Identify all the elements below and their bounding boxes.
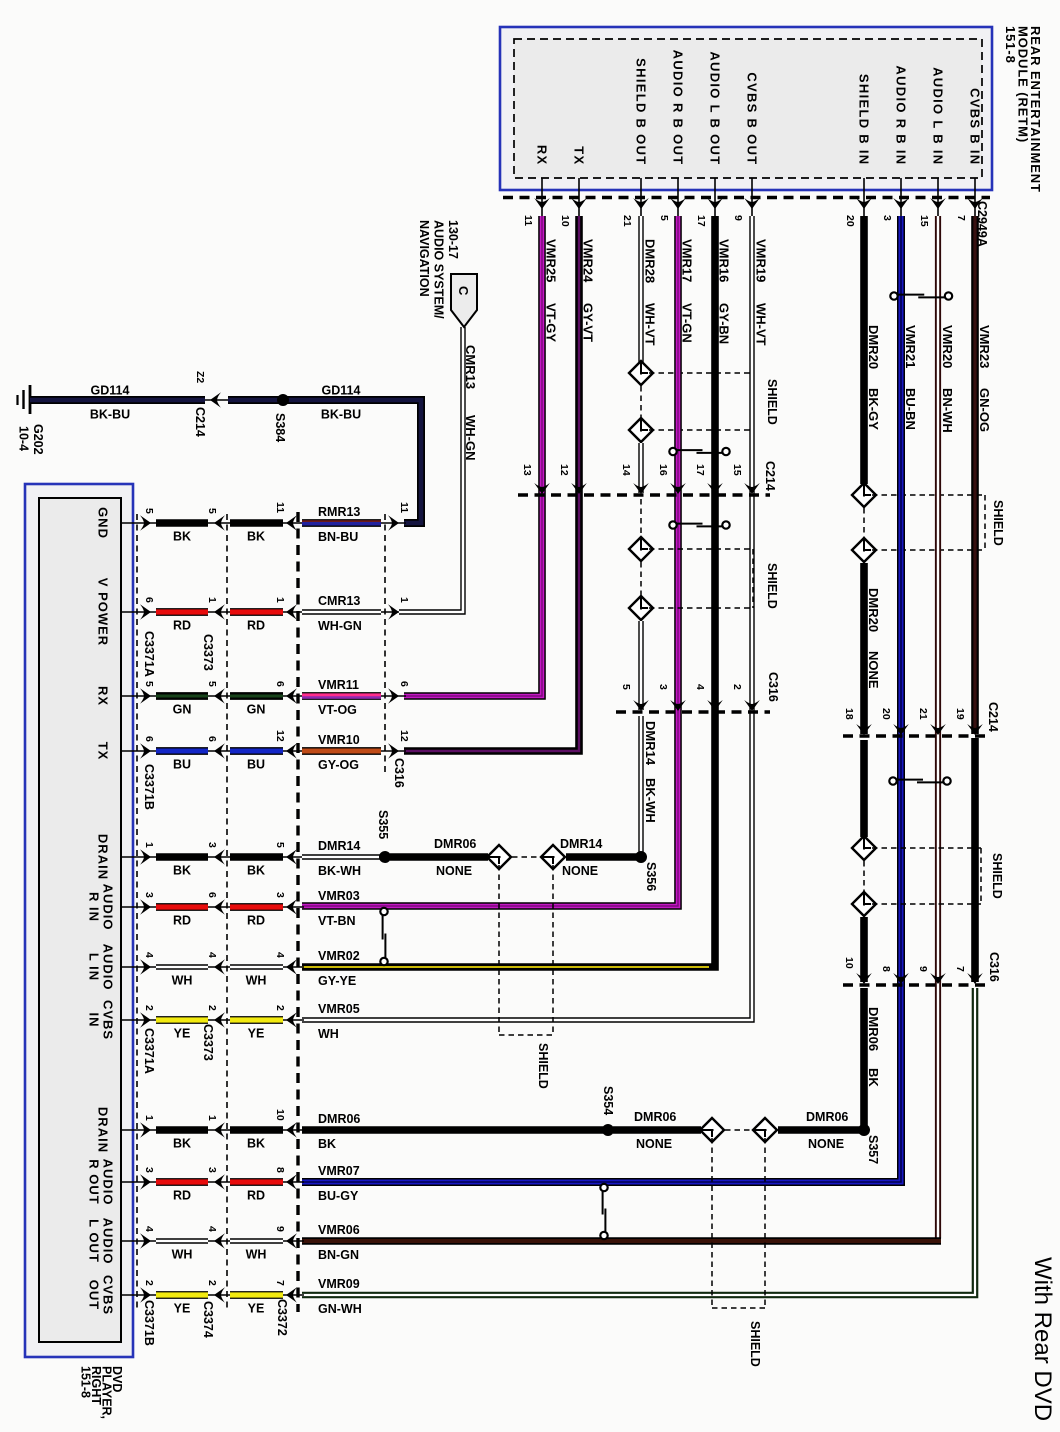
- row TX pins 6/6/12 wires BU BU VMR10: [121, 750, 158, 752]
- svg-text:WH: WH: [172, 1248, 193, 1262]
- svg-text:WH: WH: [246, 1248, 267, 1262]
- svg-text:S356: S356: [644, 862, 658, 891]
- svg-text:4: 4: [143, 952, 155, 958]
- svg-text:C214: C214: [986, 702, 1000, 732]
- svg-text:YE: YE: [174, 1302, 191, 1316]
- svg-text:GY-YE: GY-YE: [318, 974, 356, 988]
- C316 crossing arrow pin 4: [707, 700, 723, 711]
- svg-text:6: 6: [206, 736, 218, 742]
- svg-text:AUDIO R B OUT: AUDIO R B OUT: [670, 50, 685, 166]
- connector boundary dashed line C316 area: [384, 514, 386, 772]
- svg-text:9: 9: [732, 215, 744, 221]
- svg-text:C3373: C3373: [201, 634, 215, 671]
- svg-text:YE: YE: [248, 1027, 265, 1041]
- wire RMR13 BN-BU segment: [302, 519, 381, 527]
- shield diamond on DMR28 lower: [629, 418, 653, 442]
- C214 right crossing arrow pin 18: [856, 724, 872, 735]
- svg-text:2: 2: [206, 1005, 218, 1011]
- wire VMR25 VT-GY vertical (RETM pin 11 to VMR11 row): [404, 216, 542, 696]
- svg-text:S384: S384: [273, 413, 287, 442]
- svg-text:GN-OG: GN-OG: [977, 388, 992, 432]
- svg-text:BU-GY: BU-GY: [318, 1189, 359, 1203]
- svg-text:5: 5: [658, 215, 670, 221]
- splice S356: [635, 851, 647, 863]
- svg-text:2: 2: [143, 1280, 155, 1286]
- splice S355: [379, 851, 391, 863]
- shield bracket upper-right with label SHIELD: [872, 494, 985, 496]
- svg-text:CVBS: CVBS: [100, 1275, 115, 1315]
- svg-text:1: 1: [206, 597, 218, 603]
- svg-text:AUDIO R B IN: AUDIO R B IN: [893, 65, 908, 165]
- connector boundary dashed line C3371: [136, 514, 138, 1312]
- svg-text:5: 5: [206, 508, 218, 514]
- in-line connector C pentagon (audio system/navigation): [451, 274, 477, 327]
- shield diamond on DMR28 fourth: [629, 596, 653, 620]
- wire CMR13 WH-GN segment: [302, 609, 381, 614]
- yellow tracer on VMR02 GY-YE row portion: [302, 966, 709, 968]
- svg-text:SHIELD: SHIELD: [991, 500, 1005, 546]
- connector box DVD PLAYER RIGHT: [25, 484, 133, 1357]
- svg-text:AUDIO: AUDIO: [100, 1218, 115, 1265]
- wire VMR10 GY-OG segment: [302, 747, 381, 755]
- svg-text:1: 1: [274, 597, 286, 603]
- svg-text:9: 9: [274, 1226, 286, 1232]
- svg-text:VMR23: VMR23: [977, 325, 992, 368]
- svg-text:BK: BK: [247, 864, 265, 878]
- svg-text:10: 10: [559, 215, 571, 227]
- svg-text:C214: C214: [763, 461, 777, 491]
- C214 right crossing arrow pin 20: [893, 724, 909, 735]
- RETM pin 21 exit stub and arrow: [640, 178, 642, 216]
- wire black segment C214 to C316 (pin 19 to 7): [971, 738, 979, 982]
- RETM pin 10 exit stub and arrow: [578, 178, 580, 216]
- svg-text:15: 15: [918, 215, 930, 227]
- svg-text:20: 20: [844, 215, 856, 227]
- svg-text:VMR10: VMR10: [318, 733, 360, 747]
- row AUDIO L OUT pins 4/4/9 wires WH WH VMR06: [121, 1240, 158, 1242]
- svg-text:7: 7: [274, 1280, 286, 1286]
- shield diamond on DMR20 upper-1: [852, 483, 876, 507]
- svg-text:BU: BU: [173, 758, 191, 772]
- shield dashed link drain2: [725, 1129, 752, 1131]
- svg-text:3: 3: [657, 684, 669, 690]
- shield dashed link drain: [512, 856, 541, 858]
- svg-text:12: 12: [274, 730, 286, 742]
- svg-text:C214: C214: [193, 407, 207, 437]
- svg-text:DMR06: DMR06: [866, 1007, 881, 1051]
- svg-text:10: 10: [843, 957, 855, 969]
- svg-text:BK: BK: [866, 1068, 881, 1087]
- C214 right crossing arrow pin 19: [967, 724, 983, 735]
- svg-text:S355: S355: [376, 810, 390, 839]
- svg-text:4: 4: [274, 952, 286, 958]
- svg-text:5: 5: [143, 681, 155, 687]
- svg-text:L IN: L IN: [86, 953, 101, 981]
- svg-text:VMR02: VMR02: [318, 949, 360, 963]
- svg-text:VT-BN: VT-BN: [318, 914, 356, 928]
- wire GD114 BK-BU segment 2 with corner down to RMR13 row: [228, 400, 421, 523]
- svg-text:GN-WH: GN-WH: [318, 1302, 362, 1316]
- wire VMR17 VT-GN vertical (RETM pin 5 to VMR03 row): [302, 216, 678, 906]
- svg-text:IN: IN: [86, 1013, 101, 1028]
- svg-text:RX: RX: [95, 686, 110, 706]
- svg-text:VMR19: VMR19: [754, 239, 769, 282]
- svg-text:WH: WH: [318, 1027, 339, 1041]
- shield diamond on drain right: [541, 845, 565, 869]
- wire GD114 BK-BU segment 1: [30, 396, 205, 404]
- svg-text:6: 6: [206, 892, 218, 898]
- in-line connector C316 dashed line (left): [616, 710, 770, 713]
- svg-text:NONE: NONE: [808, 1137, 844, 1151]
- shield diamond on DMR28 third: [629, 537, 653, 561]
- svg-text:CMR13: CMR13: [318, 594, 360, 608]
- svg-text:DMR20: DMR20: [866, 588, 881, 632]
- svg-text:1: 1: [143, 1115, 155, 1121]
- svg-text:DMR14: DMR14: [318, 839, 360, 853]
- svg-text:S354: S354: [601, 1086, 615, 1115]
- wire DMR28 segment to C316: [638, 621, 643, 710]
- C214 crossing arrow pin 14: [633, 483, 649, 494]
- C316 crossing arrow pin 5: [633, 700, 649, 711]
- svg-text:WH-GN: WH-GN: [318, 619, 362, 633]
- svg-text:CMR13: CMR13: [463, 345, 478, 389]
- svg-text:C3371A: C3371A: [142, 1028, 156, 1074]
- splice S384: [277, 394, 289, 406]
- svg-text:CVBS B IN: CVBS B IN: [967, 88, 982, 165]
- svg-text:1: 1: [143, 842, 155, 848]
- svg-text:CVBS B OUT: CVBS B OUT: [744, 72, 759, 165]
- svg-text:AUDIO: AUDIO: [100, 884, 115, 931]
- C214 crossing arrow pin 17: [707, 483, 723, 494]
- svg-text:GD114: GD114: [322, 384, 361, 398]
- RETM pin 5 exit stub and arrow: [677, 178, 679, 216]
- svg-text:C316: C316: [987, 952, 1001, 982]
- svg-text:VMR05: VMR05: [318, 1002, 360, 1016]
- svg-text:BK: BK: [173, 864, 191, 878]
- svg-text:3: 3: [881, 215, 893, 221]
- svg-text:10: 10: [274, 1109, 286, 1121]
- svg-text:5: 5: [143, 508, 155, 514]
- svg-text:DMR20: DMR20: [866, 325, 881, 369]
- svg-text:AUDIO SYSTEM/: AUDIO SYSTEM/: [432, 220, 446, 319]
- svg-text:VMR11: VMR11: [318, 678, 359, 692]
- svg-text:1: 1: [398, 597, 410, 603]
- svg-text:TX: TX: [95, 742, 110, 761]
- wire VMR11 VT-OG segment: [302, 692, 381, 700]
- svg-text:8: 8: [880, 966, 892, 972]
- row V POWER pins 6/1/1 wires RD RD CMR13: [121, 611, 158, 613]
- svg-text:WH-GN: WH-GN: [463, 415, 478, 461]
- shield bracket upper-left with label SHIELD: [649, 372, 753, 374]
- svg-text:VMR24: VMR24: [581, 239, 596, 283]
- svg-text:GND: GND: [95, 507, 110, 539]
- svg-text:TX: TX: [571, 146, 586, 165]
- svg-text:3: 3: [206, 842, 218, 848]
- C214 right crossing arrow pin 21: [930, 724, 946, 735]
- svg-text:SHIELD B OUT: SHIELD B OUT: [633, 58, 648, 165]
- svg-text:2: 2: [731, 684, 743, 690]
- svg-text:11: 11: [398, 502, 410, 513]
- wire DMR20 NONE segment to C214: [860, 563, 868, 734]
- splice S354: [602, 1124, 614, 1136]
- svg-text:4: 4: [143, 1226, 155, 1232]
- svg-text:BK-BU: BK-BU: [90, 408, 130, 422]
- svg-text:BU: BU: [247, 758, 265, 772]
- svg-text:RD: RD: [247, 914, 265, 928]
- svg-text:NONE: NONE: [636, 1137, 672, 1151]
- RETM pin 15 exit stub and arrow: [937, 178, 939, 216]
- svg-text:151-8: 151-8: [79, 1366, 93, 1398]
- svg-text:5: 5: [206, 681, 218, 687]
- wire DMR14 BK-WH vertical (C316 to splice S356): [638, 716, 643, 853]
- shield dashed link DMR20 lower: [863, 861, 865, 892]
- svg-text:WH-VT: WH-VT: [754, 303, 769, 346]
- C316 right crossing arrow pin 7: [967, 973, 983, 984]
- svg-text:6: 6: [274, 681, 286, 687]
- svg-text:WH: WH: [246, 974, 267, 988]
- wire DMR14 BK-WH segment: [302, 854, 383, 859]
- svg-text:11: 11: [522, 215, 534, 226]
- in-line connector C316 dashed line (right): [843, 983, 990, 986]
- svg-text:1: 1: [206, 1115, 218, 1121]
- svg-text:6: 6: [143, 736, 155, 742]
- shield diamond on DMR28 upper: [629, 361, 653, 385]
- svg-text:GY-BN: GY-BN: [717, 303, 732, 344]
- svg-text:GN: GN: [247, 703, 266, 717]
- svg-text:BK-WH: BK-WH: [643, 778, 658, 823]
- twisted pair jumper VMR21/VMR20 upper: [890, 292, 897, 299]
- svg-text:VMR21: VMR21: [903, 325, 918, 368]
- svg-text:RD: RD: [247, 619, 265, 633]
- shield dashed link DMR20 upper: [863, 508, 865, 539]
- wire DMR14 NONE segment (diamond to S356): [566, 853, 639, 861]
- svg-text:130-17: 130-17: [446, 220, 460, 259]
- svg-text:DMR28: DMR28: [643, 239, 658, 283]
- svg-text:2: 2: [274, 1005, 286, 1011]
- svg-text:9: 9: [917, 966, 929, 972]
- wire DMR20 segment below C214 right: [860, 740, 868, 837]
- svg-text:GY-OG: GY-OG: [318, 758, 359, 772]
- twisted pair jumper VMR21/VMR20 below C214: [889, 777, 896, 784]
- svg-text:AUDIO: AUDIO: [100, 944, 115, 991]
- svg-text:WH: WH: [172, 974, 193, 988]
- row CVBS IN pins 2/2/2 wires YE YE VMR05: [121, 1019, 158, 1021]
- svg-text:21: 21: [917, 708, 929, 720]
- wire DMR06 NONE segment (S355 to shield diamond): [390, 853, 488, 861]
- C316 right crossing arrow pin 10: [856, 973, 872, 984]
- svg-text:WH-VT: WH-VT: [643, 303, 658, 346]
- svg-text:3: 3: [206, 1167, 218, 1173]
- svg-text:5: 5: [620, 684, 632, 690]
- ground symbol G202: [29, 385, 32, 414]
- row RX pins 5/5/6 wires GN GN VMR11: [121, 695, 158, 697]
- svg-text:3: 3: [274, 892, 286, 898]
- wire VMR16 GY-BN vertical (RETM pin 17 to VMR02 row): [302, 216, 715, 967]
- svg-text:VMR09: VMR09: [318, 1277, 360, 1291]
- wire VMR21 BU-BN vertical (RETM pin 3 to VMR07 row): [302, 216, 901, 1182]
- connector box RETM (Rear Entertainment Module): [500, 27, 992, 190]
- svg-text:DMR14: DMR14: [643, 721, 658, 766]
- svg-text:VT-GN: VT-GN: [680, 303, 695, 343]
- shield bracket drain2 row with label SHIELD: [711, 1138, 713, 1308]
- svg-text:BK-WH: BK-WH: [318, 864, 361, 878]
- svg-text:RD: RD: [247, 1189, 265, 1203]
- wire DMR20 segment to C316 right: [860, 917, 868, 982]
- splice S357: [858, 1124, 870, 1136]
- svg-text:R OUT: R OUT: [86, 1159, 101, 1204]
- C214 crossing arrow pin 13: [534, 483, 550, 494]
- svg-text:RD: RD: [173, 914, 191, 928]
- svg-text:8: 8: [274, 1167, 286, 1173]
- svg-text:VMR16: VMR16: [717, 239, 732, 282]
- svg-text:5: 5: [274, 842, 286, 848]
- RETM pin 7 exit stub and arrow: [974, 178, 976, 216]
- svg-text:CVBS: CVBS: [100, 1000, 115, 1040]
- RETM pin 17 exit stub and arrow: [714, 178, 716, 216]
- svg-text:NAVIGATION: NAVIGATION: [417, 220, 431, 297]
- svg-text:V POWER: V POWER: [95, 578, 110, 646]
- svg-text:SHIELD: SHIELD: [765, 379, 779, 425]
- svg-text:VMR20: VMR20: [940, 325, 955, 368]
- svg-text:L OUT: L OUT: [86, 1219, 101, 1263]
- C316 right crossing arrow pin 8: [893, 973, 909, 984]
- twisted pair jumper VMR17/VMR16 above C214: [669, 448, 676, 455]
- svg-text:C3371B: C3371B: [142, 764, 156, 810]
- in-line connector Z2 / C214 junction on GD114: [205, 399, 228, 401]
- svg-text:AUDIO L B OUT: AUDIO L B OUT: [707, 51, 722, 165]
- svg-text:17: 17: [694, 464, 706, 476]
- svg-text:16: 16: [657, 464, 669, 476]
- svg-text:7: 7: [955, 215, 967, 221]
- twisted pair jumper VMR07/VMR06: [600, 1184, 607, 1191]
- svg-text:DMR06: DMR06: [806, 1110, 848, 1124]
- wire VMR24 GY-VT vertical (RETM pin 10 to VMR10 row): [404, 216, 579, 751]
- svg-text:13: 13: [521, 464, 533, 476]
- twisted pair jumper VMR17/VMR16 below C214: [669, 521, 676, 528]
- svg-text:R IN: R IN: [86, 892, 101, 922]
- svg-text:4: 4: [206, 952, 218, 958]
- wire DMR06 NONE segment (S354 to diamond): [613, 1126, 701, 1134]
- svg-text:DRAIN: DRAIN: [95, 1107, 110, 1153]
- shield dashed link DMR28: [640, 386, 642, 417]
- svg-text:DMR06: DMR06: [318, 1112, 360, 1126]
- svg-text:GY-VT: GY-VT: [581, 303, 596, 342]
- svg-text:VT-OG: VT-OG: [318, 703, 357, 717]
- svg-text:SHIELD B IN: SHIELD B IN: [856, 74, 871, 166]
- svg-text:YE: YE: [248, 1302, 265, 1316]
- row AUDIO R IN pins 3/6/3 wires RD RD VMR03: [121, 906, 158, 908]
- svg-text:C3371B: C3371B: [142, 1300, 156, 1346]
- svg-text:SHIELD: SHIELD: [748, 1321, 762, 1367]
- svg-text:C: C: [456, 286, 471, 296]
- svg-text:C3373: C3373: [201, 1024, 215, 1061]
- svg-text:RD: RD: [173, 1189, 191, 1203]
- svg-text:AUDIO L B IN: AUDIO L B IN: [930, 67, 945, 165]
- wire DMR06 BK vertical (C316 to splice S357): [860, 988, 868, 1127]
- row AUDIO L IN pins 4/4/4 wires WH WH VMR02: [121, 966, 158, 968]
- svg-text:NONE: NONE: [866, 651, 881, 689]
- harness boundary thick dashed line: [296, 512, 299, 1312]
- wire CMR13 WH-GN to navigation unit: [399, 327, 463, 612]
- svg-text:BN-GN: BN-GN: [318, 1248, 359, 1262]
- C214 crossing arrow pin 12: [571, 483, 587, 494]
- svg-text:DMR06: DMR06: [434, 837, 476, 851]
- svg-text:BK-GY: BK-GY: [866, 388, 881, 430]
- C214 crossing arrow pin 16: [670, 483, 686, 494]
- wire DMR20 BK-GY vertical (RETM pin 20): [860, 216, 868, 484]
- svg-text:17: 17: [695, 215, 707, 227]
- RETM connector dashed boundary line C2949A: [503, 196, 990, 199]
- in-line connector C214 dashed line (left): [518, 493, 770, 496]
- svg-text:DRAIN: DRAIN: [95, 834, 110, 880]
- shield diamond on drain left: [487, 845, 511, 869]
- RETM pin 9 exit stub and arrow: [751, 178, 753, 216]
- C214 crossing arrow pin 15: [744, 483, 760, 494]
- svg-text:YE: YE: [174, 1027, 191, 1041]
- svg-text:VMR17: VMR17: [680, 239, 695, 282]
- svg-text:DMR06: DMR06: [634, 1110, 676, 1124]
- shield diamond on drain2 right: [753, 1118, 777, 1142]
- twisted pair jumper VMR03/VMR02: [380, 908, 387, 915]
- svg-text:10-4: 10-4: [17, 426, 31, 451]
- svg-text:2: 2: [206, 1280, 218, 1286]
- shield dashed DMR28 below C214: [640, 499, 642, 536]
- svg-text:VMR03: VMR03: [318, 889, 360, 903]
- svg-text:6: 6: [143, 597, 155, 603]
- svg-text:11: 11: [274, 502, 286, 513]
- connector boundary dashed line C3373/C3374: [226, 514, 228, 1312]
- RETM pin 20 exit stub and arrow: [863, 178, 865, 216]
- svg-text:VMR07: VMR07: [318, 1164, 360, 1178]
- svg-text:S357: S357: [866, 1135, 880, 1164]
- svg-text:C3371A: C3371A: [142, 631, 156, 677]
- shield dashed link DMR28 lower: [640, 562, 642, 595]
- svg-text:GN: GN: [173, 703, 192, 717]
- svg-text:C316: C316: [392, 758, 406, 788]
- svg-text:2: 2: [143, 1005, 155, 1011]
- shield bracket drain row with label SHIELD: [498, 865, 500, 1035]
- svg-text:3: 3: [143, 1167, 155, 1173]
- C316 crossing arrow pin 3: [670, 700, 686, 711]
- wire VMR09 GN-WH vertical and row: [302, 988, 975, 1295]
- svg-text:VMR06: VMR06: [318, 1223, 360, 1237]
- svg-text:BK: BK: [318, 1137, 336, 1151]
- shield bracket lower-right with label SHIELD: [872, 847, 981, 849]
- svg-text:12: 12: [398, 730, 410, 742]
- svg-text:SHIELD: SHIELD: [536, 1043, 550, 1089]
- row DRAIN pins 1/3/5 wires BK BK DMR14: [121, 856, 158, 858]
- row AUDIO R OUT pins 3/3/8 wires RD RD VMR07: [121, 1181, 158, 1183]
- shield diamond on DMR20 lower-2: [852, 892, 876, 916]
- svg-text:BK: BK: [247, 530, 265, 544]
- svg-text:BK-BU: BK-BU: [321, 408, 361, 422]
- svg-text:C316: C316: [766, 672, 780, 702]
- svg-text:18: 18: [843, 708, 855, 720]
- svg-text:SHIELD: SHIELD: [765, 563, 779, 609]
- svg-text:With Rear DVD: With Rear DVD: [1029, 1257, 1056, 1421]
- svg-text:12: 12: [558, 464, 570, 476]
- svg-text:BU-BN: BU-BN: [903, 388, 918, 430]
- row GND pin 5/5/11 wires BK BK RMR13: [121, 522, 158, 524]
- svg-text:7: 7: [954, 966, 966, 972]
- svg-text:151-8: 151-8: [1003, 26, 1018, 64]
- svg-text:GD114: GD114: [91, 384, 130, 398]
- svg-text:BK: BK: [173, 530, 191, 544]
- svg-text:DMR14: DMR14: [560, 837, 602, 851]
- svg-text:C3372: C3372: [275, 1299, 289, 1336]
- svg-text:OUT: OUT: [86, 1280, 101, 1310]
- wire VMR06 BN-GN row corner piece: [302, 1237, 941, 1245]
